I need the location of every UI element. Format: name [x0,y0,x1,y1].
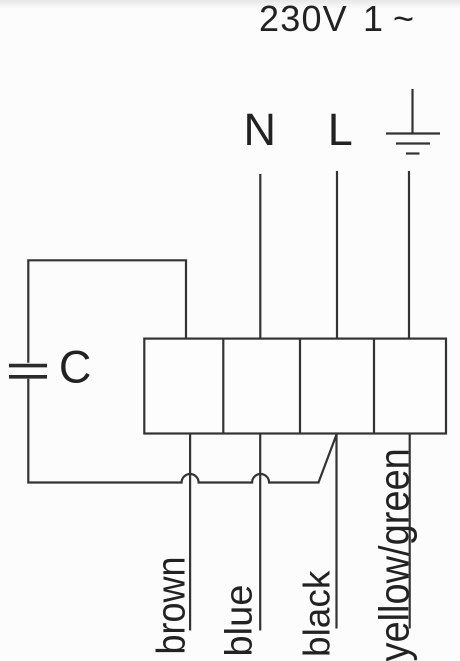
svg-text:N: N [244,104,277,155]
terminal divider 2 [299,339,301,434]
svg-text:yellow/green: yellow/green [372,448,418,661]
wire brown [189,434,191,631]
capacitor C [9,366,47,377]
terminal block [144,339,446,434]
ground [386,89,440,154]
wire L [336,171,338,339]
terminal divider 1 [222,339,224,434]
svg-text:L: L [328,104,353,155]
svg-text:230V: 230V [259,0,348,39]
svg-text:1 ~: 1 ~ [363,0,414,39]
wire yellow/green [409,434,411,629]
svg-text:C: C [59,342,92,393]
wire N [259,174,261,339]
wire capacitor loop bottom with crossover humps [28,379,336,483]
wire blue [259,434,261,631]
wire black [335,434,337,629]
label 230V 1~ [259,0,414,39]
terminal divider 3 [373,339,375,434]
wire capacitor loop top [28,260,186,362]
svg-text:blue: blue [219,585,261,657]
svg-text:black: black [297,570,338,657]
wire ground to block [408,171,410,339]
svg-text:brown: brown [150,556,194,654]
